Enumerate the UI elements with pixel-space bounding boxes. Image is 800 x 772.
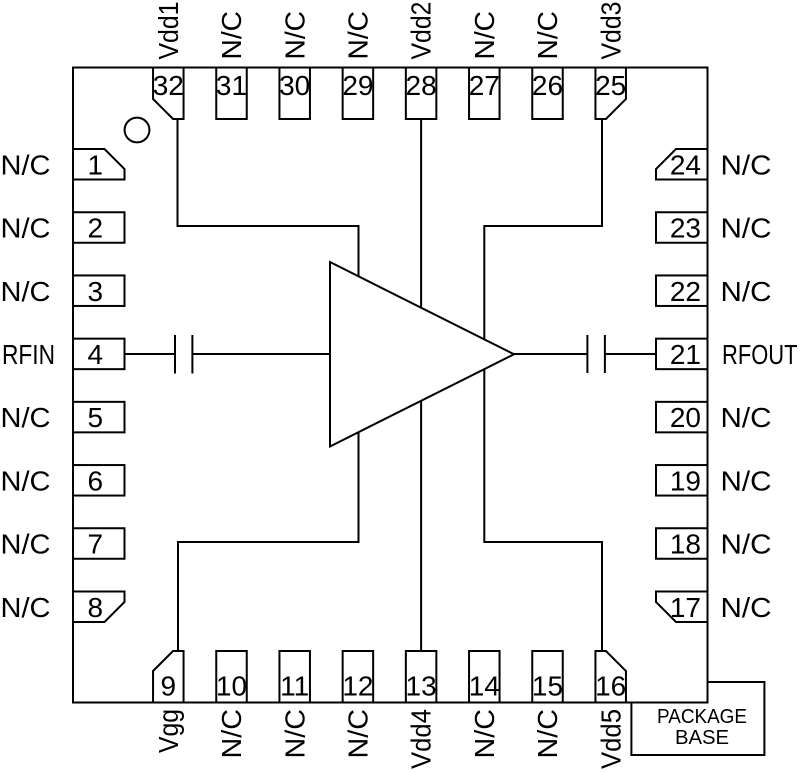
svg-text:N/C: N/C [532,11,563,60]
svg-text:PACKAGE: PACKAGE [657,706,747,728]
svg-text:Vdd4: Vdd4 [406,709,437,769]
pin 32 box (top) [153,68,184,120]
pin 15 box (bottom) [532,651,563,703]
pin-1 indicator circle [125,118,150,143]
svg-text:RFIN: RFIN [2,339,55,370]
svg-text:1: 1 [88,149,104,180]
svg-text:10: 10 [216,671,247,702]
svg-text:Vdd3: Vdd3 [595,2,626,60]
svg-text:7: 7 [88,529,104,560]
pin 1 box (left) [73,149,125,180]
svg-text:N/C: N/C [1,213,51,244]
svg-text:N/C: N/C [1,276,51,307]
svg-text:20: 20 [670,402,701,433]
svg-text:4: 4 [88,339,104,370]
pin 23 box (right) [656,212,708,243]
pin 8 box (left) [73,591,125,622]
pin 19 box (right) [656,465,708,496]
svg-text:BASE: BASE [675,727,729,749]
pin 7 box (left) [73,528,125,559]
pin 18 box (right) [656,528,708,559]
svg-text:17: 17 [670,592,701,623]
svg-text:21: 21 [670,339,701,370]
svg-text:13: 13 [406,671,437,702]
svg-text:N/C: N/C [216,709,247,759]
label PACKAGE BASE [657,706,747,749]
svg-text:N/C: N/C [1,402,51,433]
pin 28 box (top) [406,68,437,120]
svg-text:2: 2 [88,213,104,244]
svg-text:6: 6 [88,465,104,496]
pin 30 box (top) [279,68,310,120]
pin 29 box (top) [343,68,374,120]
svg-text:15: 15 [532,671,563,702]
svg-text:Vdd5: Vdd5 [595,709,626,769]
pin 21 box (right) [656,339,708,370]
svg-text:N/C: N/C [343,709,374,759]
pin 26 box (top) [532,68,563,120]
pin 11 box (bottom) [279,651,310,703]
svg-text:N/C: N/C [469,11,500,60]
svg-text:N/C: N/C [721,276,772,307]
svg-text:N/C: N/C [532,709,563,759]
svg-text:N/C: N/C [279,709,310,759]
svg-text:24: 24 [670,149,701,180]
pin 17 box (right) [656,591,708,622]
package outline [73,68,708,703]
pin 4 box (left) [73,339,125,370]
pin 14 box (bottom) [469,651,500,703]
svg-text:N/C: N/C [469,709,500,759]
pin 9 box (bottom) [153,651,184,703]
wire amplifier output to capacitor C2 [513,353,587,355]
pin 27 box (top) [469,68,500,120]
svg-text:N/C: N/C [721,149,772,180]
svg-text:N/C: N/C [721,213,772,244]
capacitor C1 (DC block, input) [175,335,192,374]
capacitor C2 (DC block, output) [587,335,605,373]
svg-text:14: 14 [469,671,500,702]
svg-text:N/C: N/C [279,11,310,60]
wire RFIN: pin4 to capacitor C1 [125,353,176,355]
package base box [631,682,764,755]
svg-text:27: 27 [469,70,500,101]
pin 5 box (left) [73,402,125,433]
pin 13 box (bottom) [406,651,437,703]
svg-text:3: 3 [88,276,104,307]
svg-text:9: 9 [161,671,177,702]
op-amp U1 (RF amplifier triangle) [330,262,514,447]
svg-text:N/C: N/C [721,592,772,623]
svg-text:19: 19 [670,465,701,496]
svg-text:N/C: N/C [1,529,51,560]
svg-text:N/C: N/C [721,465,772,496]
svg-text:Vdd2: Vdd2 [406,2,437,60]
pin 24 box (right) [656,149,708,180]
svg-text:18: 18 [670,529,701,560]
svg-text:N/C: N/C [1,592,51,623]
wire C1 to amplifier input [192,353,331,355]
svg-text:29: 29 [342,70,373,101]
svg-text:N/C: N/C [1,149,51,180]
svg-text:Vdd1: Vdd1 [153,2,184,60]
svg-text:26: 26 [532,70,563,101]
svg-text:30: 30 [279,70,310,101]
svg-text:16: 16 [595,671,626,702]
svg-text:12: 12 [342,671,373,702]
pin 22 box (right) [656,275,708,306]
svg-text:N/C: N/C [721,529,772,560]
pin 16 box (bottom) [595,651,626,703]
svg-text:N/C: N/C [1,465,51,496]
pin 12 box (bottom) [343,651,374,703]
svg-text:11: 11 [280,671,309,702]
svg-text:23: 23 [670,213,701,244]
wire Vdd1/Vgg net: pin32 down, across, through amp, across, down to pin9 [178,117,359,652]
pin 2 box (left) [73,212,125,243]
pin 10 box (bottom) [216,651,247,703]
wire Vdd2/Vdd4 net: pin28 straight down through amp to pin13 [420,118,422,652]
svg-text:22: 22 [670,276,701,307]
svg-text:5: 5 [88,402,104,433]
svg-text:RFOUT: RFOUT [722,339,798,370]
pin 20 box (right) [656,402,708,433]
svg-text:N/C: N/C [343,11,374,60]
svg-text:31: 31 [216,70,247,101]
svg-text:25: 25 [595,70,626,101]
svg-text:Vgg: Vgg [153,709,184,753]
svg-text:N/C: N/C [216,11,247,60]
wire Vdd3/Vdd5 net: pin25 down, across, through amp, across, down to pin16 [484,117,602,652]
pin 6 box (left) [73,465,125,496]
svg-text:32: 32 [153,70,184,101]
svg-text:8: 8 [88,592,104,623]
svg-text:28: 28 [406,70,437,101]
svg-text:N/C: N/C [721,402,772,433]
pin 3 box (left) [73,275,125,306]
pin 31 box (top) [216,68,247,120]
pin 25 box (top) [595,68,626,120]
wire C2 to pin21 RFOUT [605,353,656,355]
